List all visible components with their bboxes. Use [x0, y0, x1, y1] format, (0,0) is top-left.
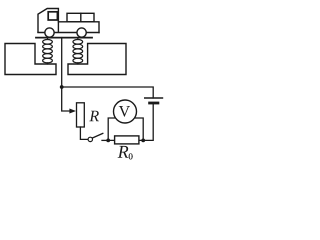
- truck cargo box: [67, 13, 94, 21]
- switch blade: [92, 133, 102, 138]
- resistor R0: [115, 136, 139, 144]
- truck bed: [58, 22, 99, 33]
- platform plate: [36, 37, 92, 39]
- battery long plate: [145, 97, 163, 99]
- right spring: [73, 38, 83, 64]
- switch pivot terminal: [88, 137, 92, 141]
- wire switch to node B: [102, 139, 108, 141]
- wire battery to node D (right side): [143, 103, 153, 140]
- node B junction dot: [106, 139, 110, 143]
- wire node B to node D: [109, 139, 144, 141]
- truck cab window: [48, 12, 57, 20]
- truck rear wheel: [77, 28, 86, 37]
- wire R bottom to switch: [80, 127, 88, 139]
- label V: [119, 106, 130, 117]
- truck cab: [38, 9, 58, 33]
- left spring: [43, 38, 53, 64]
- node D junction dot: [141, 139, 145, 143]
- label R0: [118, 146, 129, 158]
- truck cargo divider: [80, 13, 82, 21]
- right support block: [68, 44, 126, 75]
- node A junction dot: [60, 85, 64, 89]
- wiper arrowhead: [69, 109, 76, 114]
- wire node A to wiper arrow: [62, 87, 70, 111]
- wire platform to node A: [61, 38, 63, 87]
- truck chassis bottom: [38, 32, 99, 34]
- label R: [89, 111, 99, 121]
- truck front wheel: [45, 28, 54, 37]
- wire node A to battery (top): [62, 87, 154, 98]
- battery short plate: [150, 102, 158, 105]
- resistor R (rheostat): [77, 103, 85, 127]
- left support block: [5, 44, 56, 75]
- voltmeter V: [114, 100, 137, 123]
- voltmeter leads: [108, 118, 116, 140]
